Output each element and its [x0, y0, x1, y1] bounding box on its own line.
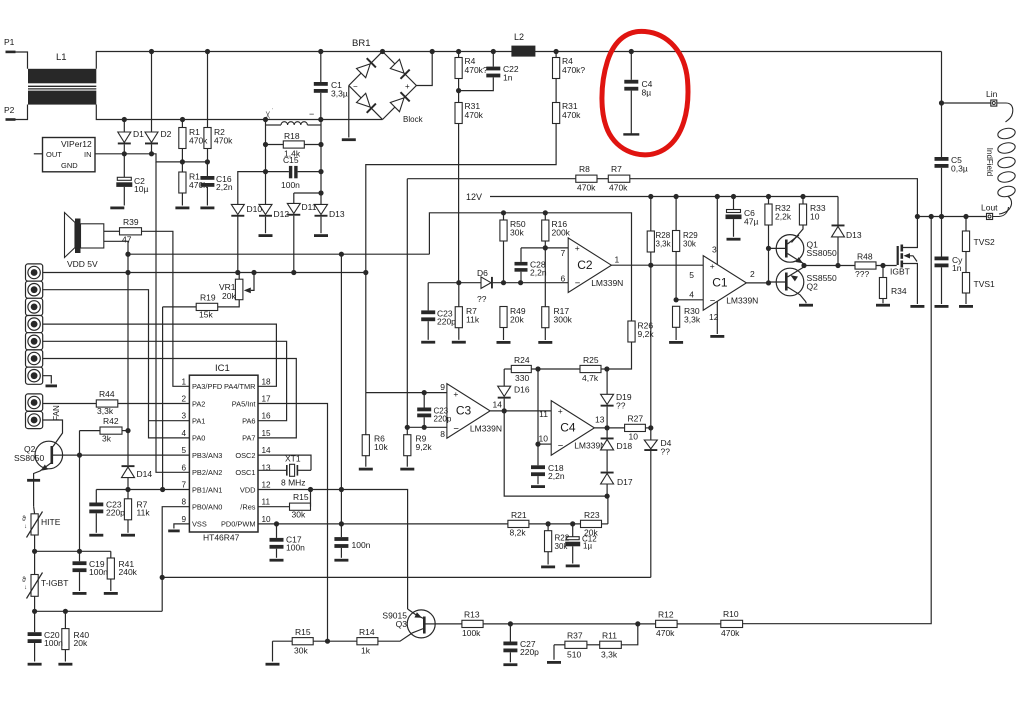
wire R39 to IC1 PA3	[142, 231, 190, 386]
ground under R17	[538, 341, 552, 344]
svg-text:PB2/AN2: PB2/AN2	[192, 468, 222, 477]
svg-text:+: +	[558, 406, 563, 416]
svg-text:470k: 470k	[465, 110, 484, 120]
svg-text:/Res: /Res	[240, 503, 256, 512]
svg-text:220p: 220p	[437, 317, 456, 327]
svg-text:PB3/AN3: PB3/AN3	[192, 451, 222, 460]
resistor R4 470k? (right)	[555, 52, 557, 58]
svg-text:PA5/Int: PA5/Int	[232, 399, 256, 408]
svg-text:5: 5	[181, 446, 186, 455]
capacitor C20 100n	[34, 611, 36, 632]
svg-text:−: −	[558, 441, 564, 452]
bridge diode top-right	[390, 59, 404, 73]
op-amp C3 LM339N	[447, 384, 490, 439]
svg-text:3: 3	[181, 412, 186, 421]
transistor Q2 SS8550	[776, 268, 804, 296]
capacitor C22 1n	[492, 52, 494, 67]
ground under C20	[28, 663, 42, 666]
wire C1 pin12 to ground	[716, 302, 718, 335]
svg-text:PA0: PA0	[192, 434, 205, 443]
svg-text:C15: C15	[283, 155, 299, 165]
wire filter right rail	[320, 120, 322, 194]
wire C3 minus input line	[407, 426, 447, 428]
svg-text:3,3k: 3,3k	[684, 315, 701, 325]
diode D1	[123, 120, 125, 133]
svg-text:8,2k: 8,2k	[510, 528, 527, 538]
svg-text:100n: 100n	[286, 543, 305, 553]
resistor R1 470k (lower)	[181, 162, 183, 172]
svg-text:8 MHz: 8 MHz	[281, 478, 306, 488]
wire PB1 line	[96, 489, 189, 491]
svg-text:9,2k: 9,2k	[638, 329, 655, 339]
svg-text:240k: 240k	[119, 567, 138, 577]
node driver output junction	[801, 263, 806, 268]
svg-text:Lin: Lin	[986, 89, 998, 99]
resistor R2 470k	[207, 52, 209, 128]
svg-text:LM339N: LM339N	[591, 278, 623, 288]
resistor R1 470k (upper)	[181, 120, 183, 128]
svg-text:FAN: FAN	[52, 405, 61, 421]
svg-text:470k: 470k	[721, 628, 740, 638]
svg-text:PA4/TMR: PA4/TMR	[224, 382, 255, 391]
svg-text:↓: ↓	[24, 585, 27, 591]
svg-text:12V: 12V	[466, 192, 482, 202]
svg-text:17: 17	[262, 395, 272, 404]
terminal Lout	[987, 213, 993, 219]
ground under C6	[727, 238, 741, 241]
wire speaker low side	[104, 241, 128, 430]
ground left of R37	[553, 645, 555, 660]
resistor R41 240k	[110, 551, 112, 558]
resistor R24 330	[504, 368, 511, 370]
svg-text:R19: R19	[200, 293, 216, 303]
ground under R9	[400, 468, 414, 471]
svg-text:1n: 1n	[503, 73, 513, 83]
svg-text:R44: R44	[99, 389, 115, 399]
ground under R7 sense	[452, 341, 466, 344]
svg-text:100n: 100n	[89, 567, 108, 577]
svg-text:+: +	[575, 243, 580, 253]
resistor R9 9,2k	[406, 427, 408, 434]
ground under IGBT source	[910, 305, 924, 308]
wire bottom AC rail	[96, 105, 382, 120]
svg-text:R8: R8	[579, 164, 590, 174]
svg-text:4: 4	[689, 290, 694, 300]
resistor R23 20k	[581, 520, 602, 527]
svg-text:XT1: XT1	[285, 454, 301, 464]
wire C2 plus input	[521, 247, 568, 249]
ground under C16	[200, 207, 214, 210]
wire R33 to Q1 collector	[792, 225, 804, 243]
wire VDD5V distribution line	[128, 253, 429, 255]
wire switch node rail	[917, 216, 986, 218]
wire PB0 to T-IGBT line	[162, 507, 189, 612]
svg-text:100n: 100n	[44, 638, 63, 648]
ground under D13	[314, 234, 328, 237]
node bottom rail junctions	[122, 117, 127, 122]
svg-text:╳: ╳	[265, 111, 270, 119]
svg-text:8: 8	[440, 429, 445, 439]
svg-text:20k: 20k	[222, 291, 236, 301]
resistor R50 30k	[503, 213, 505, 220]
wire connector pin2 to PA1 PA0	[43, 290, 190, 438]
ground under R40	[58, 663, 72, 666]
wire VIPer12 OUT stub	[34, 153, 43, 155]
svg-text:470k: 470k	[577, 183, 596, 193]
svg-text:OUT: OUT	[46, 150, 62, 159]
resistor R28 3,3k	[650, 197, 652, 232]
svg-text:R14: R14	[359, 627, 375, 637]
resistor R7 470k	[597, 178, 608, 180]
ground under Cy	[935, 305, 949, 308]
svg-text:BR1: BR1	[352, 38, 370, 49]
svg-text:D10: D10	[247, 204, 263, 214]
svg-text:TVS1: TVS1	[974, 279, 996, 289]
wire D2 net down to PB2	[156, 162, 189, 472]
svg-text:8µ: 8µ	[642, 88, 652, 98]
svg-text:PD0/PWM: PD0/PWM	[221, 520, 256, 529]
svg-text:3: 3	[712, 245, 717, 255]
resistor R27 10	[625, 424, 646, 431]
resistor R18 1,4k	[266, 144, 284, 146]
wire PA5 to R15 R14 node	[258, 404, 328, 642]
capacitor C16 2,2n	[206, 162, 208, 176]
red marker circle around C4	[602, 31, 688, 154]
svg-text:11k: 11k	[466, 315, 480, 325]
svg-text:D17: D17	[617, 477, 633, 487]
svg-text:R13: R13	[464, 610, 480, 620]
transistor Q3 S9015	[407, 610, 435, 638]
svg-text:1: 1	[181, 377, 186, 386]
svg-text:−: −	[575, 278, 581, 289]
svg-text:Q2: Q2	[807, 282, 819, 292]
svg-text:3k: 3k	[102, 434, 112, 444]
wire comparator supply rail	[429, 213, 631, 369]
svg-text:10: 10	[810, 212, 820, 222]
resistor R48 ???	[855, 262, 876, 269]
ground under C2	[110, 207, 124, 210]
svg-text:R15: R15	[295, 627, 311, 637]
svg-text:D16: D16	[514, 385, 530, 395]
svg-text:13: 13	[262, 463, 272, 472]
diode D13 (driver)	[837, 197, 839, 225]
wire VDD line to Q3	[310, 490, 312, 507]
wire PD0/PWM line	[258, 523, 508, 525]
svg-text:15: 15	[262, 429, 272, 438]
svg-text:200k: 200k	[552, 228, 571, 238]
svg-text:2: 2	[750, 269, 755, 279]
wire connector pin7 to ground	[43, 376, 52, 384]
wire R24 node down to C4 minus	[537, 369, 539, 444]
capacitor C28 2,2n	[520, 248, 522, 262]
diode D11	[293, 193, 295, 203]
transistor Q1 SS8050	[776, 235, 804, 263]
resistor R11 3,3k	[587, 644, 600, 646]
svg-text:4,7k: 4,7k	[582, 373, 599, 383]
svg-text:3,3k: 3,3k	[97, 406, 114, 416]
inductor filter coil	[266, 124, 282, 126]
svg-text:LM339N: LM339N	[470, 424, 502, 434]
svg-text:??: ??	[661, 447, 671, 457]
wire P1 to L1	[16, 52, 28, 69]
wire T-IGBT sense line	[35, 610, 163, 612]
svg-text:OSC2: OSC2	[235, 451, 255, 460]
diode D14	[127, 431, 129, 466]
op-amp C4 LM339N	[551, 401, 594, 456]
speaker	[65, 213, 76, 258]
svg-text:PA1: PA1	[192, 417, 205, 426]
svg-text:16: 16	[262, 412, 272, 421]
resistor R12 470k	[656, 620, 678, 627]
svg-text:−: −	[309, 109, 314, 119]
ground under C18	[531, 485, 545, 488]
svg-text:8: 8	[181, 498, 186, 507]
resistor R15 30k (bottom)	[273, 640, 293, 642]
svg-text:P2: P2	[4, 105, 15, 115]
diode D18	[606, 428, 608, 438]
capacitor 100n (PD0)	[340, 254, 342, 537]
wire connector pin1 line	[43, 272, 366, 274]
svg-text:L1: L1	[56, 52, 67, 63]
resistor R49 20k	[500, 307, 507, 328]
node Lin junction	[939, 100, 944, 105]
svg-text:VDD: VDD	[240, 485, 256, 494]
resistor R10 470k	[721, 620, 743, 627]
svg-text:470k?: 470k?	[562, 65, 585, 75]
ground under C12	[566, 565, 580, 568]
ground under Q2 emitter	[805, 302, 807, 303]
ground under D12	[259, 234, 273, 237]
diode D16	[503, 369, 505, 386]
svg-text:TVS2: TVS2	[974, 237, 996, 247]
resistor R13 100k	[435, 623, 462, 625]
svg-text:13: 13	[595, 415, 605, 425]
svg-text:IC1: IC1	[215, 363, 230, 374]
svg-text:−: −	[353, 82, 358, 91]
resistor R33 10	[802, 197, 804, 205]
svg-text:10: 10	[629, 432, 639, 442]
ground under R41	[104, 592, 118, 595]
wire C1 pin3 from 12V rail	[716, 197, 718, 265]
svg-text:R34: R34	[891, 286, 907, 296]
wire 12V rail	[490, 196, 838, 198]
wire connector pin4 to PA4/TMR	[43, 324, 277, 386]
wire P2 to L1	[16, 105, 28, 120]
diode D17	[601, 472, 614, 474]
wire R31 left down to sense line	[458, 124, 460, 283]
svg-text:D18: D18	[617, 441, 633, 451]
svg-text:20k: 20k	[510, 315, 524, 325]
resistor R8 470k	[407, 178, 576, 180]
ground under C23 PB1	[89, 534, 103, 537]
resistor R44 3,3k	[43, 403, 97, 405]
svg-text:IndField: IndField	[985, 148, 994, 176]
svg-text:C4: C4	[560, 421, 576, 435]
transistor Q2 SS8050 (fan driver)	[35, 441, 63, 469]
resistor R16 200k	[544, 213, 546, 220]
svg-text:VSS: VSS	[192, 520, 207, 529]
wire top AC rail	[96, 52, 941, 69]
ground under C27	[503, 663, 517, 666]
wire VIPer12 IN line	[95, 154, 207, 162]
wire C3 plus input line	[366, 392, 447, 394]
svg-text:OSC1: OSC1	[235, 468, 255, 477]
wire top rail down right side	[941, 52, 943, 158]
transistor IGBT	[897, 246, 899, 265]
capacitor C5 0,3u	[935, 157, 949, 161]
ground under R6	[359, 468, 373, 471]
svg-text:100n: 100n	[352, 540, 371, 550]
svg-text:+: +	[405, 82, 410, 91]
svg-text:10: 10	[262, 515, 272, 524]
svg-text:+: +	[453, 389, 458, 399]
svg-text:−: −	[453, 424, 459, 435]
svg-text:2,2n: 2,2n	[548, 471, 565, 481]
svg-text:R39: R39	[123, 217, 139, 227]
wire feedback to bottom row	[743, 217, 932, 624]
resistor R15 30k (reset)	[258, 506, 290, 508]
svg-text:IGBT: IGBT	[890, 267, 910, 277]
wire BR1 + output riser	[416, 52, 432, 86]
bridge diode bottom-right	[390, 98, 404, 112]
capacitor C23 220p (sense)	[427, 283, 429, 311]
suppressor TVS2	[965, 217, 967, 232]
crystal XT1 8MHz	[258, 455, 311, 470]
svg-text:5: 5	[689, 270, 694, 280]
resistor R7 11k (sense)	[458, 283, 460, 307]
svg-text:30k: 30k	[294, 646, 308, 656]
svg-text:D11: D11	[302, 202, 317, 212]
svg-text:R12: R12	[658, 610, 674, 620]
diode D4	[644, 440, 657, 449]
svg-text:R18: R18	[284, 131, 300, 141]
svg-text:D2: D2	[161, 129, 172, 139]
ground under R49	[497, 341, 511, 344]
svg-text:2,2n: 2,2n	[216, 182, 233, 192]
svg-text:100k: 100k	[462, 628, 481, 638]
capacitor C19 100n	[79, 551, 81, 561]
resistor R32 2,2k	[768, 197, 770, 205]
svg-text:R10: R10	[723, 609, 739, 619]
resistor R6 10k	[365, 393, 367, 435]
wire R19 branch down to PB1 line	[162, 307, 164, 490]
resistor R14 1k	[357, 638, 378, 645]
svg-text:47: 47	[122, 235, 132, 245]
svg-text:C2: C2	[577, 258, 593, 272]
resistor R29 30k	[675, 197, 677, 231]
resistor R31 470k (right)	[555, 79, 557, 103]
svg-text:100n: 100n	[281, 180, 300, 190]
svg-text:R15: R15	[293, 492, 309, 502]
terminal Lin	[942, 102, 991, 104]
svg-text:P1: P1	[4, 37, 15, 47]
svg-text:470k: 470k	[562, 110, 581, 120]
svg-text:D6: D6	[477, 268, 488, 278]
ground under R1	[175, 207, 189, 210]
svg-text:470k: 470k	[214, 136, 233, 146]
svg-text:−: −	[710, 296, 716, 307]
svg-text:47µ: 47µ	[744, 217, 758, 227]
svg-text:D14: D14	[137, 469, 153, 479]
svg-text:1µ: 1µ	[583, 542, 592, 551]
svg-text:ϑ: ϑ	[22, 577, 26, 584]
svg-text:˙: ˙	[272, 109, 274, 115]
wire connector pin6 to PA7	[43, 359, 297, 438]
wire C1 output	[746, 282, 768, 284]
svg-text:C1: C1	[712, 276, 728, 290]
resistor R34	[882, 266, 884, 278]
bridge diode bottom-left	[357, 93, 371, 107]
wire R7 to right rail	[630, 179, 918, 217]
diode D2	[151, 52, 153, 133]
svg-text:10: 10	[539, 434, 549, 444]
svg-text:1k: 1k	[361, 646, 371, 656]
svg-text:9: 9	[440, 382, 445, 392]
wire thermistor divider line	[35, 550, 111, 552]
svg-text:3,3µ: 3,3µ	[331, 89, 348, 99]
svg-text:470k: 470k	[656, 628, 675, 638]
svg-text:220p: 220p	[106, 508, 125, 518]
svg-text:R7: R7	[611, 164, 622, 174]
svg-text:HT46R47: HT46R47	[203, 533, 240, 543]
capacitor C23 220p (PB1)	[95, 490, 97, 503]
ground under R7 PB1	[121, 534, 135, 537]
op-amp C2 LM339N	[568, 238, 611, 293]
ground left of R15	[272, 641, 274, 661]
wire C1 minus input	[676, 299, 703, 301]
wire R42 branch to Q2 base line	[79, 431, 81, 552]
wire C3 output	[490, 410, 551, 412]
svg-text:11: 11	[262, 498, 271, 507]
svg-text:T-IGBT: T-IGBT	[41, 578, 68, 588]
capacitor C23 220p (C3)	[423, 393, 425, 408]
ground under C1	[710, 335, 724, 338]
svg-text:2: 2	[181, 395, 186, 404]
diode D19	[606, 369, 608, 394]
wire C2 minus input line	[428, 282, 481, 284]
IC IC1 HT46R47	[189, 375, 258, 532]
capacitor C2 10u	[123, 154, 125, 178]
wire D4 net down to PWM line	[650, 428, 652, 578]
svg-text:??: ??	[477, 294, 487, 304]
svg-text:15k: 15k	[199, 310, 213, 320]
resistor R19 15k	[163, 306, 197, 308]
svg-text:PB1/AN1: PB1/AN1	[192, 485, 222, 494]
svg-text:6: 6	[561, 274, 566, 284]
capacitor C1 3,3u	[320, 52, 322, 83]
ground under C23 sense	[421, 341, 435, 344]
resistor R25 4,7k	[531, 368, 580, 370]
svg-text:14: 14	[493, 400, 503, 410]
wire C4 output	[594, 427, 624, 429]
resistor R31 470k (left)	[458, 79, 460, 103]
capacitor C27 220p	[509, 624, 511, 642]
svg-text:GND: GND	[61, 161, 78, 170]
wire filter left rail	[265, 120, 267, 172]
svg-text:7: 7	[561, 248, 566, 258]
svg-text:??: ??	[616, 401, 626, 411]
thermistor T-IGBT	[34, 551, 36, 574]
svg-text:30k: 30k	[683, 240, 697, 249]
node top rail junctions	[149, 49, 154, 54]
svg-text:20k: 20k	[74, 638, 88, 648]
resistor R22 30k	[547, 524, 549, 531]
svg-text:R11: R11	[602, 631, 617, 641]
resistor R37 510	[554, 644, 565, 646]
svg-text:R24: R24	[514, 355, 530, 365]
capacitor Cy 1n	[941, 217, 943, 257]
svg-text:470k: 470k	[609, 183, 628, 193]
